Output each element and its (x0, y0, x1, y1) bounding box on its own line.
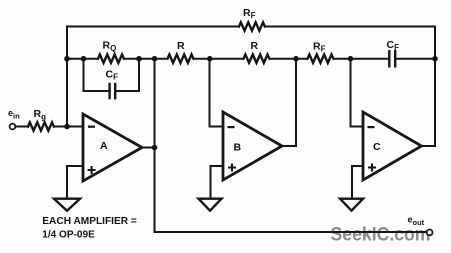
wire A noninverting input to ground (67, 166, 83, 198)
op-amp A minus pin (88, 126, 95, 128)
op-amp C minus pin (368, 126, 375, 128)
op-amp A plus pin (88, 166, 96, 174)
svg-text:RF: RF (243, 7, 256, 20)
op-amp B plus pin (228, 164, 236, 172)
node CF branch left junction (81, 56, 87, 62)
svg-text:R: R (251, 40, 259, 52)
wire R2 to RF2 (270, 58, 308, 60)
wire second row: A- node to RQ (67, 58, 98, 60)
wire C inverting input (351, 59, 364, 127)
resistor RQ (98, 55, 124, 63)
svg-text:CF: CF (106, 69, 119, 82)
svg-text:B: B (234, 142, 242, 154)
wire left vertical (top RF to A inverting input) (66, 27, 68, 127)
resistor R (A output to B input) (168, 55, 194, 63)
wire B output to second row (282, 59, 296, 146)
svg-text:EACH AMPLIFIER =: EACH AMPLIFIER = (42, 215, 137, 227)
wire C output to right vertical (422, 145, 436, 147)
wire Rg to A inverting input (54, 126, 83, 128)
ground (A) (54, 199, 80, 211)
svg-text:CF: CF (387, 39, 400, 52)
resistor RF (top feedback) (239, 22, 265, 30)
capacitor CF (C integrator feedback) (389, 51, 395, 66)
resistor R (B feedback) (244, 55, 270, 63)
wire bottom output rail (155, 231, 427, 233)
wire CF1 branch (parallel cap around A) (84, 59, 140, 91)
terminal e_in (10, 124, 16, 130)
wire RQ to R1 (124, 58, 168, 60)
node CF branch right junction (136, 56, 142, 62)
svg-text:C: C (373, 141, 381, 153)
wire RF2 to CF2 (334, 58, 390, 60)
svg-text:1/4 OP-09E: 1/4 OP-09E (42, 228, 95, 240)
wire CF2 to C output node (395, 58, 435, 60)
node B inverting input junction (207, 56, 213, 62)
wire B inverting input (210, 59, 224, 127)
wire C noninverting input to ground (352, 166, 363, 198)
svg-text:RQ: RQ (103, 40, 117, 54)
wire A output (142, 147, 155, 149)
capacitor CF (A feedback) plates (110, 84, 116, 98)
wire top feedback left segment (67, 26, 239, 28)
node A inverting input junction (64, 124, 70, 130)
svg-text:R: R (177, 40, 185, 52)
node C output junction (432, 56, 438, 62)
node C inverting input junction (348, 56, 354, 62)
op-amp A (83, 114, 142, 181)
op-amp C (363, 112, 422, 180)
node B output junction (293, 56, 299, 62)
wire B noninverting input to ground (211, 166, 224, 198)
wire R1 to R2 (194, 58, 244, 60)
node A output junction (152, 145, 158, 151)
wire right vertical (C output to top RF) (434, 27, 436, 147)
wire e_in to Rg (15, 126, 28, 128)
node A- / second row junction (64, 56, 70, 62)
svg-text:A: A (100, 140, 108, 152)
wire A output vertical (to second row and bottom rail) (154, 59, 156, 232)
node A output on second row (152, 56, 158, 62)
ground (B) (199, 199, 222, 211)
op-amp B (223, 112, 282, 180)
ground (C) (340, 199, 363, 211)
op-amp B minus pin (228, 126, 235, 128)
svg-text:ein: ein (8, 108, 20, 121)
op-amp C plus pin (368, 164, 376, 172)
resistor RF (B output to C input) (308, 55, 334, 63)
svg-text:Rg: Rg (34, 108, 47, 122)
svg-text:RF: RF (313, 41, 326, 54)
wire top feedback right segment (265, 26, 435, 28)
terminal e_out (427, 230, 433, 236)
resistor Rg (28, 122, 54, 130)
